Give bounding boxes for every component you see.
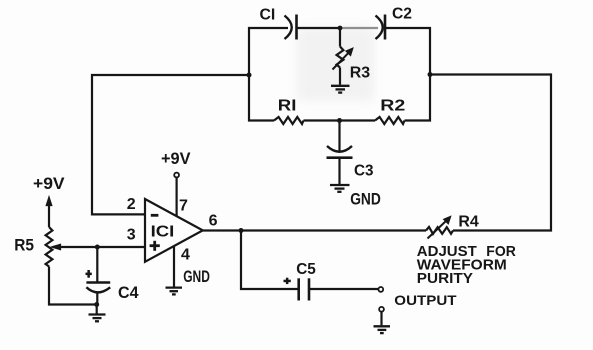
junction node: left feedback [247,73,252,78]
junction node: C4 bottom [94,302,99,307]
op-amp minus input sign [151,214,159,217]
junction node: pin6 output [239,228,244,233]
wire: output pin 6 [203,229,426,231]
svg-text:OUTPUT: OUTPUT [394,292,457,308]
wire: C3 to ground [338,158,340,184]
wire: pin 3 from wiper [53,246,145,248]
junction node: right feedback [428,72,433,77]
svg-text:+9V: +9V [161,150,191,168]
svg-text:2: 2 [127,196,136,213]
svg-text:R5: R5 [14,236,34,254]
wire: pin 7 supply [176,177,178,216]
terminal: +9V circle [174,173,179,178]
ground: R3 [331,86,350,93]
svg-text:R3: R3 [350,65,371,82]
svg-text:C2: C2 [392,6,412,23]
wire: C1 to center junction [298,27,341,29]
wire: C3 top [338,121,340,151]
svg-text:R4: R4 [458,213,479,230]
junction node: C1-C2-R3 [338,26,343,31]
svg-text:C4: C4 [118,284,139,302]
wire: R3 top [339,28,341,47]
op-amp IC1 triangle [145,199,203,262]
resistor R5 (pot) with arrow up [46,197,97,305]
capacitor C5 [299,278,309,300]
terminal: output ground circle [379,307,384,312]
capacitor C1 [285,15,297,40]
svg-text:+9V: +9V [33,175,65,193]
scan tint patch [297,27,374,101]
junction node: R1-R2-C3 [337,118,342,123]
svg-text:C5: C5 [296,261,316,278]
wire: output ground stem [380,312,382,326]
ground: C3 GND [330,185,350,192]
svg-text:R2: R2 [380,98,405,115]
resistor R4 (variable) [426,216,453,238]
svg-text:PURITY: PURITY [417,270,473,287]
wire: C4 bottom [96,292,98,304]
wire: wiper junction down to C4 [96,247,98,282]
wire: pin6 junction down and over to C5 [241,231,298,290]
polarity plus of C4 [86,270,92,278]
capacitor C2 [376,15,386,40]
polarity plus of C5 [284,278,291,284]
ground: op-amp pin 4 [166,288,183,295]
resistor R3 (variable) [333,47,354,70]
wire: feedback from left twin-T node down to pin 2 [92,75,249,214]
svg-text:3: 3 [127,227,136,244]
wire: C5 to output terminal [310,288,378,290]
wire: center junction to C2 (faded in scan) [340,27,378,29]
wire: R1 to center junction [304,119,376,121]
capacitor C4 [86,283,110,293]
wiper arrow of R5 [52,244,61,249]
wire: pin 4 to ground [173,246,175,287]
resistor R2 [375,117,405,124]
wire: top twin-T left segment + left edge [249,28,288,121]
svg-text:ICI: ICI [151,223,175,240]
svg-text:GND: GND [183,267,210,286]
svg-text:GND: GND [350,190,381,209]
svg-text:CI: CI [260,7,276,24]
svg-text:6: 6 [209,213,218,230]
svg-text:RI: RI [278,98,297,115]
wire: C2 to corner + twin-T right edge [386,28,430,121]
capacitor C3 [327,146,353,158]
ground: output [374,326,391,333]
op-amp plus input sign [150,241,160,251]
ground: C4 [89,315,106,322]
junction node: wiper-C4 [95,245,100,250]
svg-text:7: 7 [179,198,188,215]
wire: R4 to right riser and back to twin-T right node [430,75,551,231]
resistor R1 [274,117,304,124]
wire: C4 junction to ground [96,305,98,314]
svg-text:C3: C3 [354,163,374,180]
terminal: OUTPUT circle [378,287,383,292]
svg-text:4: 4 [181,247,190,264]
wire: R3 to ground [339,68,341,85]
